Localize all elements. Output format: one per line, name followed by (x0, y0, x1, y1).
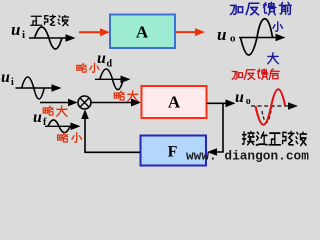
svg-text:u: u (217, 25, 226, 44)
label 正弦波 (31, 15, 69, 26)
svg-text:d: d (107, 59, 113, 70)
amplifier block A (top) (110, 15, 175, 49)
u_i sine wave (top) (29, 37, 71, 39)
label 加反馈后 (red) (232, 69, 279, 80)
svg-text:u: u (11, 20, 20, 39)
summing junction (78, 96, 91, 109)
svg-text:www. diangon.com: www. diangon.com (186, 149, 309, 164)
red near-sine wave (256, 89, 286, 125)
label 小 (blue) (273, 22, 283, 32)
svg-text:u: u (97, 50, 106, 67)
dashed vertical at crossing (262, 104, 272, 122)
svg-text:i: i (22, 29, 25, 41)
svg-text:A: A (136, 23, 149, 42)
output wire of bottom A with branch (207, 102, 231, 104)
u_d sine wave (95, 78, 126, 80)
label 接近正弦波 (black) (243, 131, 307, 145)
output wave after feedback: dashed axis (251, 105, 293, 107)
feedback block F (141, 136, 207, 166)
svg-text:o: o (246, 96, 251, 107)
output wave before feedback (239, 37, 281, 39)
wire junction to bottom A (91, 102, 133, 104)
feedback wire F to junction (85, 112, 140, 152)
u_i sine wave (bottom) (16, 87, 58, 89)
svg-text:i: i (11, 77, 14, 88)
svg-text:o: o (230, 33, 236, 45)
svg-text:u: u (1, 69, 10, 86)
svg-text:u: u (33, 109, 42, 126)
u_f sine wave (45, 125, 76, 127)
label 加反馈前 (blue) (230, 2, 291, 14)
label 大 (blue) (268, 53, 279, 64)
svg-text:A: A (168, 93, 181, 112)
label 略大 (red, above wire to A) (114, 91, 138, 102)
amplifier block A (bottom) (142, 86, 207, 118)
red arrow into top A (79, 31, 101, 33)
svg-text:F: F (168, 144, 178, 161)
label 略小 (red, below u_f wave) (58, 133, 82, 143)
red arrow out of top A (176, 31, 196, 33)
wire u_i into summing junction (40, 102, 72, 104)
label 略小 (red, near u_d) (77, 63, 99, 72)
label 略大 (red, near u_f) (43, 106, 67, 117)
svg-text:u: u (235, 89, 244, 106)
wire branch into F with arrow (212, 150, 223, 153)
